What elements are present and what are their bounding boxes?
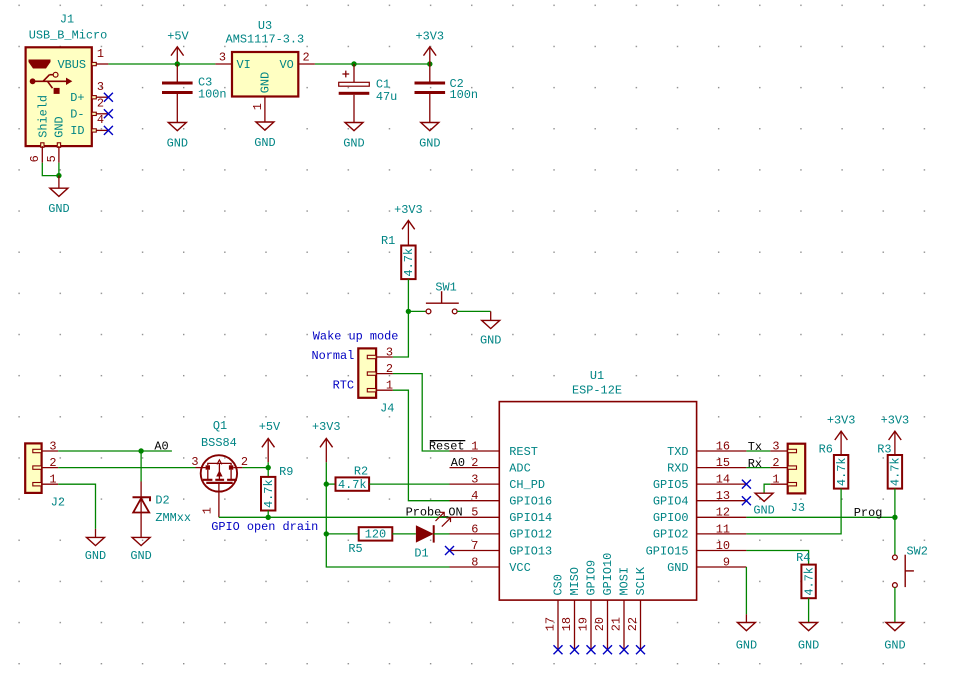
svg-text:3: 3 [49, 439, 56, 453]
zener diode D2 ZMMxx [133, 482, 192, 526]
svg-text:R3: R3 [877, 442, 891, 456]
svg-text:GPIO5: GPIO5 [653, 478, 689, 492]
U1 pin 8 VCC [450, 555, 531, 574]
wire J2 pin2 to Q1 gate [58, 467, 195, 469]
svg-text:GND: GND [254, 136, 275, 150]
svg-text:4: 4 [471, 489, 478, 503]
svg-text:2: 2 [241, 455, 248, 469]
svg-text:GND: GND [753, 504, 774, 518]
svg-text:ZMMxx: ZMMxx [155, 511, 191, 525]
wire Q1 drain row [219, 516, 268, 518]
+5V power symbol above R9 [259, 420, 281, 468]
J1 pin 4 ID [70, 113, 108, 138]
connector J1 USB_B_Micro [26, 12, 108, 146]
wire SW2 to gnd [894, 588, 896, 623]
+3V3 power symbol above R1 [394, 203, 423, 246]
svg-text:GPIO16: GPIO16 [509, 495, 552, 509]
svg-text:GND: GND [480, 334, 501, 348]
svg-text:4.7k: 4.7k [835, 458, 849, 487]
wire J2 pin3 A0 net [58, 450, 172, 452]
junction Q1 source / R9 top [266, 465, 271, 470]
svg-text:VCC: VCC [509, 561, 530, 575]
USB plug icon [29, 60, 51, 69]
U1 pin 13 GPIO4 [653, 489, 747, 508]
svg-text:A0: A0 [154, 439, 168, 453]
no-connect X on ID [104, 126, 113, 135]
ground symbol below SW2 [884, 623, 905, 653]
junction A0 / D2 [138, 448, 143, 453]
svg-text:REST: REST [509, 445, 538, 459]
U1 pin 16 TXD [667, 439, 746, 458]
ground symbol below U1 pin9 [736, 614, 757, 652]
svg-text:J4: J4 [380, 401, 394, 415]
no-connect X on GPIO4 [742, 496, 751, 505]
ground symbol below J1 [48, 176, 69, 217]
svg-text:GPIO0: GPIO0 [653, 511, 689, 525]
svg-text:4.7k: 4.7k [338, 478, 367, 492]
svg-text:RTC: RTC [333, 379, 354, 393]
svg-text:CS0: CS0 [552, 574, 566, 595]
svg-text:4.7k: 4.7k [802, 567, 816, 596]
U1 pin 9 GND [667, 555, 746, 574]
wire R2 to ESP CH_PD [369, 483, 449, 485]
label Reset with overline [429, 439, 465, 453]
svg-text:10: 10 [716, 539, 730, 553]
wire R6 to ESP GPIO2 [746, 489, 841, 534]
wire J1 pin5 to gnd junction [58, 163, 60, 176]
svg-text:2: 2 [303, 51, 310, 65]
junction at C2 / +3V3 tap [427, 61, 432, 66]
svg-text:2: 2 [49, 456, 56, 470]
U1 pin 17 CS0 [544, 574, 566, 650]
svg-text:CH_PD: CH_PD [509, 478, 545, 492]
svg-text:1: 1 [386, 379, 393, 393]
svg-text:R6: R6 [819, 442, 833, 456]
wire SW1 to gnd [457, 310, 491, 312]
svg-text:GND: GND [48, 202, 69, 216]
resistor R6 4.7k [819, 442, 849, 488]
svg-text:16: 16 [716, 439, 730, 453]
U3 pin 3 VI [215, 51, 232, 65]
svg-text:20: 20 [593, 617, 607, 631]
svg-text:GPIO12: GPIO12 [509, 528, 552, 542]
svg-text:GPIO13: GPIO13 [509, 544, 552, 558]
svg-text:3: 3 [191, 455, 198, 469]
svg-text:6: 6 [28, 155, 42, 162]
no-connect X on GPIO5 [742, 480, 751, 489]
svg-text:Normal: Normal [312, 349, 355, 363]
wire junction down to SW2 [894, 517, 896, 555]
resistor R2 4.7k [336, 464, 370, 492]
U1 pin 22 SCLK [626, 566, 648, 650]
connector J4 [358, 348, 394, 415]
svg-text:14: 14 [716, 473, 730, 487]
svg-text:11: 11 [716, 522, 730, 536]
svg-text:RXD: RXD [667, 461, 688, 475]
svg-text:3: 3 [471, 473, 478, 487]
no-connect X on MISO [570, 645, 579, 654]
junction at +5V / C3 tap [175, 61, 180, 66]
svg-text:GND: GND [736, 638, 757, 652]
svg-text:AMS1117-3.3: AMS1117-3.3 [226, 33, 305, 47]
svg-text:Prog: Prog [854, 506, 883, 520]
svg-text:+5V: +5V [167, 29, 189, 43]
no-connect X on D- [104, 109, 113, 118]
svg-text:8: 8 [471, 555, 478, 569]
J4 pin 3 [367, 345, 393, 359]
U1 pin 21 MOSI [610, 567, 632, 650]
J1 pin 1 VBUS [57, 47, 108, 72]
wire +3V3 rail down to VCC row [326, 462, 449, 567]
resistor R9 4.7k [261, 465, 293, 511]
ground symbol below C3 [167, 123, 188, 151]
svg-text:GPIO14: GPIO14 [509, 511, 552, 525]
svg-text:GND: GND [52, 116, 66, 137]
svg-text:+5V: +5V [259, 420, 281, 434]
svg-text:GPIO15: GPIO15 [646, 544, 689, 558]
junction rail / R5 [324, 531, 329, 536]
U1 pin 15 RXD [667, 456, 746, 475]
svg-text:Reset: Reset [429, 439, 465, 453]
svg-text:18: 18 [560, 617, 574, 631]
wire RXD to J3 pin2 [746, 467, 770, 469]
svg-text:ID: ID [70, 124, 84, 138]
junction R1/SW1/J4 [406, 309, 411, 314]
svg-text:Rx: Rx [748, 457, 762, 471]
svg-text:A0: A0 [451, 456, 465, 470]
svg-text:VBUS: VBUS [57, 58, 86, 72]
svg-text:GPIO2: GPIO2 [653, 528, 689, 542]
svg-text:R9: R9 [279, 465, 293, 479]
U3 pin 1 GND [251, 97, 265, 123]
U1 pin 6 GPIO12 [450, 522, 553, 541]
no-connect X on GPIO10 [603, 645, 612, 654]
resistor R3 4.7k [877, 442, 902, 488]
connector J3 [788, 444, 806, 515]
wire rail to R2 [326, 483, 335, 485]
J2 pin 3 [33, 439, 58, 453]
ground symbol below D2 [130, 537, 151, 563]
svg-text:+3V3: +3V3 [827, 414, 856, 428]
wire rail to R5 [326, 533, 358, 535]
+5V power symbol [167, 29, 189, 64]
no-connect X on GPIO9 [587, 645, 596, 654]
svg-text:1: 1 [251, 103, 265, 110]
svg-text:D2: D2 [155, 494, 169, 508]
svg-text:GND: GND [419, 136, 440, 150]
resistor R4 4.7k [796, 551, 816, 598]
svg-text:1: 1 [471, 439, 478, 453]
J2 pin 2 [33, 456, 58, 470]
svg-text:4.7k: 4.7k [402, 248, 416, 277]
U1 pin 4 GPIO16 [450, 489, 553, 508]
svg-text:U3: U3 [258, 19, 272, 33]
U1 pin 3 CH_PD [450, 473, 545, 492]
J3 pin 1 [770, 473, 796, 487]
svg-text:22: 22 [626, 617, 640, 631]
wire J2 pin1 to gnd [58, 484, 95, 529]
transistor Q1 BSS84 [191, 419, 248, 517]
svg-text:3: 3 [97, 80, 104, 94]
svg-text:4.7k: 4.7k [262, 479, 276, 508]
svg-text:Q1: Q1 [213, 419, 227, 433]
junction R9 / drain row [266, 515, 271, 520]
ground symbol below J3 pin1 [753, 493, 774, 517]
U1 pin 19 GPIO9 [577, 560, 599, 650]
svg-text:GND: GND [667, 561, 688, 575]
wire junction to SW1 [408, 310, 426, 312]
J2 pin 1 [33, 473, 58, 487]
svg-text:GPIO open drain: GPIO open drain [211, 520, 318, 534]
svg-text:VI: VI [237, 58, 251, 72]
svg-text:3: 3 [386, 345, 393, 359]
svg-text:R1: R1 [381, 234, 395, 248]
LED D1 [414, 512, 450, 560]
svg-text:SCLK: SCLK [634, 566, 648, 595]
svg-text:47u: 47u [376, 90, 397, 104]
svg-text:GND: GND [85, 549, 106, 563]
svg-text:2: 2 [386, 362, 393, 376]
J3 pin 2 [770, 456, 796, 470]
wire GPIO0 Prog row [746, 516, 895, 518]
ground symbol below C2 [419, 123, 440, 151]
J1 pin 2 D- [70, 97, 108, 122]
U1 pin 12 GPIO0 [653, 506, 747, 525]
svg-text:7: 7 [471, 539, 478, 553]
svg-text:+3V3: +3V3 [416, 29, 445, 43]
svg-text:12: 12 [716, 506, 730, 520]
junction at J1 gnd [56, 173, 61, 178]
svg-text:3: 3 [219, 51, 226, 65]
svg-text:R2: R2 [354, 464, 368, 478]
svg-text:D+: D+ [70, 91, 84, 105]
svg-text:1: 1 [201, 507, 215, 514]
svg-text:1: 1 [97, 47, 104, 61]
svg-text:MOSI: MOSI [618, 567, 632, 596]
wire J4 pin2 to ESP REST [393, 374, 450, 451]
USB trident icon [30, 72, 73, 94]
+3V3 power symbol above rail [312, 420, 341, 463]
no-connect X on GPIO13 [445, 546, 454, 555]
svg-text:ADC: ADC [509, 461, 530, 475]
svg-text:13: 13 [716, 489, 730, 503]
ground symbol below J2 [85, 529, 106, 563]
svg-text:4: 4 [97, 113, 104, 127]
svg-text:17: 17 [544, 617, 558, 631]
ground symbol below U3 [254, 122, 275, 150]
wire R5 to D1 [392, 533, 416, 535]
connector J2 [25, 443, 65, 509]
svg-text:1: 1 [772, 473, 779, 487]
svg-text:1: 1 [49, 473, 56, 487]
junction Prog / R3 / SW2 [892, 515, 897, 520]
svg-text:2: 2 [471, 456, 478, 470]
svg-text:2: 2 [772, 456, 779, 470]
U1 pin 2 ADC [450, 456, 531, 475]
switch SW2 [893, 545, 928, 588]
svg-text:Shield: Shield [37, 95, 51, 138]
switch SW1 [426, 280, 459, 314]
svg-text:GPIO9: GPIO9 [585, 560, 599, 596]
svg-text:Wake up mode: Wake up mode [313, 330, 399, 344]
svg-text:GPIO4: GPIO4 [653, 495, 689, 509]
svg-text:100n: 100n [198, 88, 227, 102]
svg-text:+3V3: +3V3 [312, 420, 341, 434]
svg-text:GND: GND [798, 638, 819, 652]
U1 pin 18 MISO [560, 567, 582, 650]
svg-text:U1: U1 [590, 369, 604, 383]
U1 pin 20 GPIO10 [593, 553, 615, 650]
wire Q1 source to +5V junction [242, 467, 268, 469]
svg-text:SW1: SW1 [435, 280, 456, 294]
IC U1 ESP-12E body [499, 369, 696, 600]
svg-text:4.7k: 4.7k [889, 458, 903, 487]
resistor R5 120 [348, 527, 392, 556]
svg-text:19: 19 [577, 617, 591, 631]
J1 pin 3 D+ [70, 80, 108, 105]
wire D2 to gnd [140, 513, 142, 538]
J3 pin 3 [770, 439, 796, 453]
wire J4 pin1 to ESP GPIO16 [393, 390, 450, 501]
svg-text:GND: GND [343, 136, 364, 150]
+3V3 power symbol above R3 [881, 414, 910, 456]
wire D1 to ESP GPIO12 [434, 533, 450, 535]
svg-text:MISO: MISO [568, 567, 582, 596]
U1 pin 10 GPIO15 [646, 539, 747, 558]
svg-text:J1: J1 [60, 12, 74, 26]
svg-text:120: 120 [365, 528, 386, 542]
wire R3 bottom to Prog junction [894, 489, 896, 518]
U1 pin 11 GPIO2 [653, 522, 747, 541]
svg-text:GND: GND [130, 549, 151, 563]
wire U1 GND pin9 down [745, 567, 747, 614]
svg-text:J2: J2 [51, 495, 65, 509]
J4 pin 1 [367, 379, 393, 393]
wire R1 bottom to SW1 junction [407, 279, 409, 311]
svg-text:D-: D- [70, 108, 84, 122]
svg-text:6: 6 [471, 522, 478, 536]
wire U3 VO to +3V3 [315, 63, 430, 65]
no-connect X on SCLK [636, 645, 645, 654]
no-connect X on D+ [104, 93, 113, 102]
svg-text:BSS84: BSS84 [201, 436, 237, 450]
svg-text:5: 5 [45, 155, 59, 162]
svg-text:100n: 100n [450, 88, 479, 102]
no-connect X on CS0 [554, 645, 563, 654]
ground symbol right of SW1 [480, 311, 501, 347]
wire drain row to ESP GPIO14 [268, 516, 449, 518]
svg-text:R4: R4 [796, 551, 810, 565]
U1 pin 7 GPIO13 [450, 539, 553, 558]
svg-text:R5: R5 [348, 542, 362, 556]
regulator U3 AMS1117-3.3 [226, 19, 305, 97]
svg-text:+3V3: +3V3 [394, 203, 423, 217]
junction at C1 tap [351, 61, 356, 66]
U1 pin 5 GPIO14 [450, 506, 553, 525]
svg-text:15: 15 [716, 456, 730, 470]
junction rail / R2 [324, 481, 329, 486]
svg-text:GND: GND [259, 72, 273, 93]
svg-text:ESP-12E: ESP-12E [572, 383, 622, 397]
wire R9 bottom to open drain row [267, 511, 269, 518]
wire GPIO15 to R4 [746, 551, 808, 565]
wire J3 pin1 to gnd [764, 484, 770, 493]
wire J4 pin3 up to junction [393, 311, 409, 357]
wire VBUS to U3 VI [108, 63, 215, 65]
svg-text:GPIO10: GPIO10 [601, 553, 615, 596]
wire J1 pin6 to gnd junction [42, 163, 59, 176]
U1 pin 14 GPIO5 [653, 473, 747, 492]
capacitor C1 47u polarized [339, 64, 398, 123]
wire R4 to gnd [808, 598, 810, 622]
svg-text:J3: J3 [791, 501, 805, 515]
svg-text:SW2: SW2 [907, 545, 928, 559]
resistor R1 4.7k [381, 234, 416, 279]
ground symbol below C1 [343, 123, 364, 151]
svg-text:GND: GND [167, 136, 188, 150]
svg-text:5: 5 [471, 506, 478, 520]
wire A0 down to D2 [140, 451, 142, 482]
J4 pin 2 [367, 362, 393, 376]
+3V3 power symbol top [416, 29, 445, 64]
U1 pin 1 REST [450, 439, 538, 458]
J1 pin 6 Shield [28, 95, 50, 163]
wire TXD to J3 pin3 [746, 450, 770, 452]
svg-text:3: 3 [772, 439, 779, 453]
J1 pin 5 GND [45, 116, 67, 162]
svg-text:+3V3: +3V3 [881, 414, 910, 428]
no-connect X on MOSI [620, 645, 629, 654]
U3 pin 2 VO [298, 51, 315, 65]
svg-text:21: 21 [610, 617, 624, 631]
svg-text:2: 2 [97, 97, 104, 111]
svg-text:9: 9 [723, 555, 730, 569]
svg-text:D1: D1 [414, 546, 428, 560]
svg-text:GND: GND [884, 638, 905, 652]
svg-text:VO: VO [280, 58, 294, 72]
wire junction to R9 [267, 468, 269, 477]
capacitor C3 100n [162, 64, 227, 123]
capacitor C2 100n [415, 64, 479, 123]
+3V3 power symbol above R6 [827, 414, 856, 456]
svg-text:TXD: TXD [667, 445, 688, 459]
svg-text:Tx: Tx [748, 440, 762, 454]
svg-text:USB_B_Micro: USB_B_Micro [29, 29, 108, 43]
ground symbol below R4 [798, 623, 819, 653]
